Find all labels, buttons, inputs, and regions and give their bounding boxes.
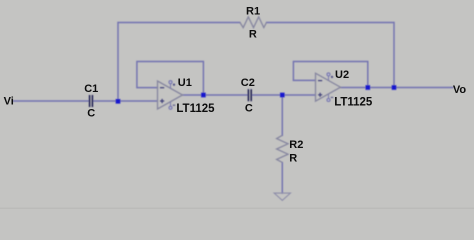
svg-text:R2: R2: [289, 139, 303, 151]
bottom edge shading: [0, 208, 474, 210]
svg-text:C: C: [245, 103, 253, 115]
svg-text:R1: R1: [246, 6, 260, 18]
wire R2 upper stem: [281, 95, 283, 136]
svg-text:Vo: Vo: [453, 84, 467, 96]
svg-text:U2: U2: [335, 69, 349, 81]
wire U2 output to Vo: [341, 87, 453, 89]
svg-text:C1: C1: [84, 83, 98, 95]
node junction at right riser: [392, 85, 397, 90]
svg-text:Vi: Vi: [4, 96, 14, 108]
wire C1 to U1 +input (through node): [93, 100, 157, 102]
svg-text:LT1125: LT1125: [176, 103, 215, 115]
wire C2 to U2 +input: [251, 94, 315, 96]
node junction at R2 top: [280, 93, 285, 98]
resistor R2: [277, 135, 288, 162]
wire R2 lower stem to ground: [281, 163, 283, 194]
wire left vertical riser: [117, 23, 119, 102]
op-amp U2: [316, 73, 341, 102]
wire right vertical drop to output: [393, 23, 395, 88]
wire top right segment from R1: [267, 22, 395, 24]
svg-text:LT1125: LT1125: [334, 96, 373, 108]
svg-text:C2: C2: [241, 77, 255, 89]
node junction at U2 feedback: [366, 85, 371, 90]
resistor R1: [240, 17, 267, 28]
svg-text:R: R: [289, 152, 297, 164]
node junction at C1/riser: [116, 99, 121, 104]
op-amp U1: [158, 81, 183, 110]
svg-text:C: C: [87, 108, 95, 120]
wire U1 output to C2: [183, 94, 249, 96]
wire U2 feedback loop: [293, 62, 367, 88]
wire Vi to C1: [13, 100, 89, 102]
node junction at U1 output: [201, 93, 206, 98]
capacitor C1: [90, 95, 93, 107]
capacitor C2: [248, 89, 251, 101]
svg-text:U1: U1: [178, 77, 192, 89]
wire top left segment to R1: [118, 22, 240, 24]
ground: [274, 193, 290, 200]
svg-text:R: R: [249, 29, 257, 41]
wire U1 feedback loop: [137, 62, 204, 96]
